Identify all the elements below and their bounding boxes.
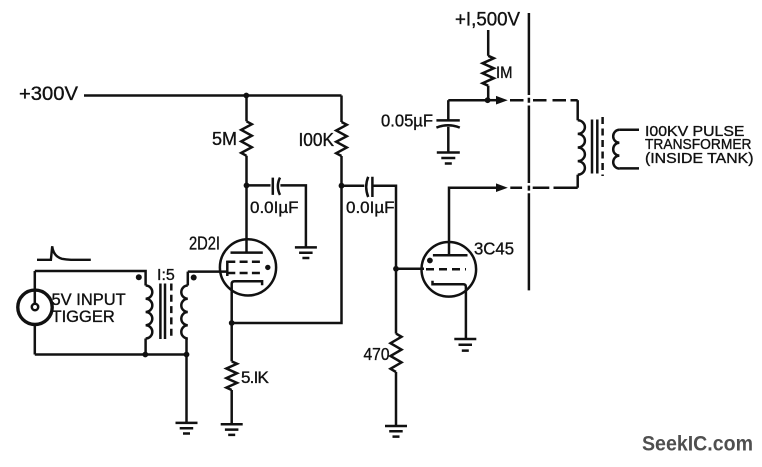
svg-text:2D2I: 2D2I: [189, 234, 220, 254]
wire cap1 left lead: [247, 184, 271, 187]
wire cap2 right lead down to 3C45 grid node: [372, 186, 396, 269]
svg-text:0.05µF: 0.05µF: [381, 111, 433, 131]
wire 470 bottom lead: [395, 372, 398, 426]
wire +1500 lead: [487, 30, 490, 56]
wire cap1 right lead: [280, 185, 306, 247]
pulse transformer core dashed line: [601, 117, 604, 176]
wire node to cap 0.05uF: [448, 99, 487, 102]
capacitor 0.05uF plates: [436, 120, 459, 127]
2D21 grid dot: [265, 265, 270, 270]
wire cap2 left lead: [342, 184, 365, 187]
node junction T1 primary bottom: [142, 352, 148, 358]
svg-text:0.0IµF: 0.0IµF: [346, 198, 395, 217]
tank wall line: [528, 13, 531, 290]
trigger source connector circle: [18, 290, 52, 324]
2D21 grid left bar: [226, 261, 229, 276]
3C45 cathode: [433, 281, 466, 339]
node junction 100K bottom / cap2: [339, 183, 345, 189]
svg-text:+300V: +300V: [19, 83, 78, 105]
node junction 2D21 cathode / 5.1K: [229, 320, 235, 326]
T1 phasing dot primary: [136, 274, 142, 280]
pulse transformer primary winding: [578, 120, 585, 174]
wire 3C45 anode riser: [449, 188, 498, 256]
node junction 5M top on +300V rail: [243, 93, 249, 99]
wire 5.1K top lead: [230, 323, 233, 361]
svg-text:IM: IM: [496, 63, 513, 82]
wire source box top: [35, 271, 146, 286]
ground for T1 secondary: [176, 423, 198, 434]
wire grid node to 3C45: [396, 268, 424, 271]
wire 100K top lead: [340, 96, 343, 123]
wire secondary top stub: [619, 129, 639, 132]
2D21 grid dashed lines: [227, 262, 261, 273]
resistor 100K: [336, 122, 347, 156]
wire T1 secondary top lead: [187, 272, 190, 286]
wire 5.1K bottom lead: [230, 390, 233, 424]
wire 1M bottom lead: [487, 86, 490, 101]
svg-text:I00K: I00K: [299, 130, 335, 150]
wire 5M top lead: [245, 96, 248, 122]
capacitor C2 0.01uF plates: [366, 177, 372, 197]
node junction secondary bottom / ground drop: [184, 352, 190, 358]
ground for 5.1K: [221, 424, 243, 435]
wire 0.05uF bottom lead: [447, 127, 450, 153]
svg-text:3C45: 3C45: [474, 239, 514, 259]
2D21 anode plate: [231, 251, 263, 254]
dashed feed upper: [510, 99, 578, 102]
wire long link cathode node to 100K bottom node: [232, 186, 342, 323]
node junction 5M bottom / coupling cap / 2D21 anode: [244, 183, 250, 189]
tube 2D21 envelope: [220, 239, 276, 295]
svg-text:TIGGER: TIGGER: [52, 308, 115, 326]
svg-text:5.IK: 5.IK: [241, 368, 270, 387]
wire pulse transformer primary bottom lead: [576, 175, 579, 188]
tube 3C45 envelope: [422, 242, 477, 297]
3C45 grid dashed line: [426, 268, 466, 271]
3C45 anode plate: [433, 254, 468, 257]
wire 470 top lead: [395, 269, 398, 334]
wire 100K bottom lead: [340, 156, 343, 186]
node junction 3C45 grid / 470 top: [393, 266, 399, 272]
wire secondary bottom stub: [619, 167, 639, 170]
T1 phasing dot secondary: [191, 275, 197, 281]
svg-text:470: 470: [364, 344, 390, 364]
pulse transformer secondary winding: [613, 130, 619, 169]
node junction 1M / 0.05uF / feed: [485, 97, 491, 103]
2D21 cathode: [232, 281, 262, 323]
3C45 grid dot: [427, 258, 433, 264]
svg-text:(INSIDE TANK): (INSIDE TANK): [645, 151, 754, 167]
svg-text:0.0IµF: 0.0IµF: [250, 198, 299, 217]
arrow upper feed: [496, 96, 508, 105]
capacitor C1 0.01uF plates: [273, 178, 280, 195]
wire +300V rail: [84, 94, 342, 97]
dashed feed lower: [510, 186, 577, 189]
wire upper feed with arrow shaft: [488, 99, 498, 102]
resistor 5M: [241, 121, 252, 156]
resistor 1M: [483, 56, 494, 86]
ground for 3C45 cathode: [454, 339, 476, 351]
arrow lower feed: [496, 183, 508, 192]
svg-text:5M: 5M: [212, 129, 237, 149]
pulse waveform icon: [37, 246, 91, 259]
svg-text:SeekIC.com: SeekIC.com: [642, 433, 753, 456]
wire 2D21 grid lead from transformer: [188, 270, 228, 273]
resistor 5.1K: [226, 361, 237, 390]
wire T1 primary bottom lead: [144, 339, 147, 355]
transformer T1 primary winding: [146, 286, 153, 339]
ground for 0.05uF: [437, 153, 460, 164]
wire T1 secondary bottom lead: [185, 339, 188, 355]
ground for C1: [295, 247, 317, 258]
wire 0.05uF top lead: [447, 100, 450, 120]
wire ground drop: [185, 355, 188, 423]
T1 core lines solid: [160, 284, 165, 340]
svg-text:+I,500V: +I,500V: [455, 10, 520, 31]
wire source box bottom rail: [35, 353, 187, 356]
pulse transformer core solid lines: [592, 120, 597, 174]
resistor 470: [391, 334, 402, 372]
wire pulse transformer primary top lead: [576, 100, 579, 120]
ground for 470: [385, 426, 407, 437]
wire 5M bottom to 2D21 plate: [245, 156, 248, 253]
T1 core line dashed: [170, 284, 173, 340]
wire source left vertical: [34, 271, 37, 355]
trigger source inner terminal: [32, 304, 38, 310]
svg-text:5V INPUT: 5V INPUT: [52, 291, 126, 309]
svg-text:I:5: I:5: [157, 267, 175, 284]
transformer T1 secondary winding: [181, 286, 188, 339]
